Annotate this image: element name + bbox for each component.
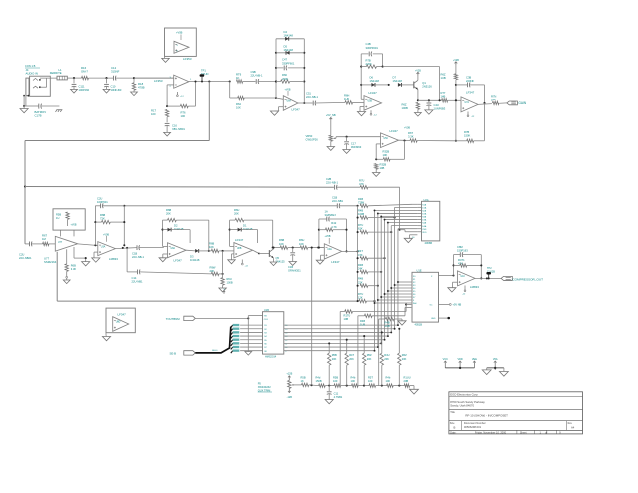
transistor Q5 (269, 248, 285, 266)
svg-text:C111: C111 (79, 84, 86, 88)
svg-text:Sheet: Sheet (520, 432, 527, 435)
svg-text:330PF601: 330PF601 (282, 61, 295, 65)
svg-text:LM833: LM833 (109, 257, 118, 261)
svg-text:3NFM63: 3NFM63 (351, 145, 362, 149)
svg-text:LF347: LF347 (118, 313, 127, 317)
svg-text:C16: C16 (172, 123, 177, 127)
svg-text:SE-B: SE-B (170, 351, 177, 355)
diode D5 (276, 44, 304, 54)
matrix U1E fan (374, 281, 412, 304)
resistor R7B 220K (361, 59, 382, 69)
svg-text:U5B: U5B (368, 101, 373, 103)
svg-text:U8A: U8A (171, 247, 176, 250)
power arrow small (223, 289, 226, 294)
svg-text:CW10P26: CW10P26 (306, 137, 319, 141)
svg-text:U8B: U8B (237, 248, 242, 250)
op-amp U1 (170, 75, 193, 88)
svg-text:R6B: R6B (100, 213, 105, 217)
wire TOUTBNK (195, 316, 262, 320)
power +5V_NB (326, 113, 336, 135)
svg-text:VEE: VEE (472, 358, 477, 361)
wire U8B fb left (229, 220, 234, 246)
svg-text:R7U: R7U (358, 292, 363, 296)
U5B plus gnd (357, 107, 365, 116)
op-amp U10 (458, 271, 476, 286)
testpoint TP2 (486, 267, 495, 280)
svg-text:R6T: R6T (408, 131, 413, 135)
diode D4 (276, 30, 304, 41)
svg-text:72BK: 72BK (358, 200, 365, 204)
wire U1 inv input (167, 85, 174, 106)
svg-text:RT6: RT6 (181, 111, 187, 115)
svg-text:20K: 20K (367, 357, 372, 361)
wire U1 out (189, 80, 231, 82)
svg-text:4051B: 4051B (415, 323, 423, 327)
wire agcfb right rail (123, 206, 125, 247)
resistor R6Z 1UB (441, 59, 460, 80)
wire C14 branch (127, 248, 137, 272)
svg-text:C4U: C4U (434, 103, 439, 107)
svg-text:1UK: 1UK (344, 97, 349, 101)
inductor L1 FERRITE (50, 68, 68, 80)
wire fb right rail (382, 54, 384, 68)
svg-text:1N4148: 1N4148 (243, 227, 253, 231)
wire U5C plus (376, 144, 380, 159)
svg-text:+12B: +12B (286, 373, 292, 376)
svg-text:C14: C14 (132, 276, 137, 280)
svg-text:C4B: C4B (366, 42, 371, 46)
wire R6Z down rail (455, 80, 457, 142)
svg-text:1A: 1A (325, 210, 328, 214)
svg-text:100: 100 (181, 114, 186, 118)
wire clamp left rail (275, 39, 277, 98)
op-amp U1B spare box (165, 28, 197, 56)
resistor R4B mid row (358, 308, 412, 386)
svg-text:LF347: LF347 (174, 258, 183, 262)
IC U1E (412, 269, 439, 327)
svg-text:U5C: U5C (384, 138, 389, 140)
wire U6A plus gnd (270, 107, 283, 116)
label LF353 U1 (154, 79, 163, 83)
svg-text:3.3K: 3.3K (408, 134, 414, 138)
svg-text:D4: D4 (284, 30, 288, 34)
svg-text:2N5126: 2N5126 (422, 85, 432, 89)
wire U8B out (253, 250, 270, 254)
U10 power stub (462, 286, 466, 296)
svg-text:4.7K: 4.7K (331, 225, 337, 229)
U8B plus gnd (228, 254, 235, 264)
svg-text:R5B: R5B (332, 353, 337, 357)
amp U77 triangle (55, 230, 77, 251)
svg-text:Q5: Q5 (276, 256, 280, 260)
svg-text:20K: 20K (234, 211, 239, 215)
svg-text:LM833: LM833 (470, 285, 479, 289)
svg-text:4.7NB1: 4.7NB1 (334, 395, 343, 399)
svg-text:10K: 10K (236, 105, 241, 109)
svg-text:C4T: C4T (282, 58, 287, 62)
svg-text:R4d: R4d (316, 376, 321, 380)
svg-text:D3A: D3A (422, 219, 427, 222)
svg-text:22U-NB-1: 22U-NB-1 (251, 74, 263, 78)
svg-text:R7B: R7B (464, 130, 469, 134)
svg-text:330PF601: 330PF601 (366, 46, 379, 50)
svg-text:U3A: U3A (101, 245, 106, 248)
svg-text:SEL0: SEL0 (212, 350, 218, 352)
wire U5C out (399, 139, 411, 141)
svg-text:Friday, November 10, 2000: Friday, November 10, 2000 (475, 431, 507, 435)
svg-text:R1TU: R1TU (344, 314, 351, 318)
wire VR50 wiper (336, 136, 381, 139)
svg-text:100: 100 (151, 112, 156, 116)
svg-text:20K: 20K (332, 357, 337, 361)
capacitor C4B (361, 42, 382, 56)
diode D7 (393, 75, 415, 87)
svg-text:10B: 10B (380, 166, 385, 170)
svg-text:R4T1: R4T1 (458, 258, 465, 262)
op-amp U5B (364, 91, 382, 110)
tap resistor R4T 20K 2 (345, 339, 355, 386)
svg-text:P5: P5 (258, 382, 262, 386)
svg-text:D5: D5 (284, 44, 288, 48)
svg-text:VCC: VCC (443, 358, 448, 361)
wire U1E out (439, 274, 455, 276)
chassis ground (56, 110, 63, 112)
svg-text:U8D: U8D (116, 322, 121, 324)
svg-text:+5V_NB: +5V_NB (326, 113, 336, 117)
U2A gnd pin (404, 235, 417, 243)
wires SEL to DIP (240, 325, 262, 351)
op-amp U8A (168, 243, 187, 258)
resistor R18 (131, 82, 145, 96)
svg-text:Sandy, Utah 84070: Sandy, Utah 84070 (450, 404, 474, 408)
resistor RT8 100 (167, 82, 195, 119)
IC U2A (422, 198, 440, 245)
svg-text:R32B: R32B (383, 150, 390, 154)
wire U10 fb left (452, 255, 454, 276)
ground J4 sleeve (20, 95, 29, 113)
svg-text:R7U: R7U (359, 178, 364, 182)
svg-text:VSS: VSS (422, 229, 427, 231)
svg-text:+V0B: +V0B (285, 88, 291, 91)
capacitor C3B (456, 75, 485, 103)
wire big loop (57, 252, 359, 301)
power VDD (457, 358, 462, 368)
capacitor C17 (343, 137, 362, 154)
svg-text:R6H: R6H (344, 94, 349, 98)
svg-text:VDD: VDD (457, 358, 462, 361)
bus SEL label (212, 350, 218, 352)
svg-text:150B: 150B (316, 379, 322, 383)
svg-text:C8M: C8M (457, 245, 463, 249)
svg-text:1N4148: 1N4148 (284, 48, 294, 52)
svg-text:R4b: R4b (351, 376, 356, 380)
capacitor C1B bus (332, 196, 359, 209)
capacitor C42 (319, 210, 347, 222)
svg-text:R6B: R6B (209, 242, 214, 246)
chain resistor R4e 100 (386, 376, 405, 388)
wire fb loop right (474, 103, 485, 141)
power VEE (472, 358, 477, 368)
capacitor C2U input (19, 242, 43, 260)
wire U1E vcc pin (439, 304, 462, 307)
svg-text:1N4148: 1N4148 (174, 227, 184, 231)
wire R16 to C12 (89, 77, 114, 79)
svg-text:20K: 20K (384, 357, 389, 361)
switch U1B DIP (263, 309, 289, 358)
svg-text:U9A: U9A (327, 248, 332, 251)
diode D1 (230, 223, 258, 243)
svg-text:1UNF6B3: 1UNF6B3 (434, 107, 446, 111)
resistor R5B 1K (301, 376, 319, 387)
svg-text:GND: GND (431, 318, 436, 320)
resistor R32B 10B (372, 163, 386, 177)
svg-text:D2: D2 (174, 223, 178, 227)
capacitor C2B (326, 177, 360, 190)
capacitor C17B BATMOV (24, 104, 59, 118)
svg-text:R6Z: R6Z (441, 73, 446, 77)
svg-text:34ZNB2J: 34ZNB2J (325, 213, 337, 217)
title block (449, 392, 583, 435)
svg-text:S1A: S1A (422, 203, 426, 206)
U8A plus gnd (159, 254, 167, 262)
svg-text:1U: 1U (56, 216, 59, 220)
testpoint TP1 (200, 68, 209, 81)
U1E right labels (430, 276, 437, 320)
svg-text:C3B: C3B (466, 75, 471, 79)
chain resistor R4d 150B (316, 376, 335, 388)
svg-text:+V2B: +V2B (415, 70, 421, 73)
svg-text:R1UU: R1UU (404, 376, 411, 380)
wire agc out (78, 244, 98, 246)
wire feedback bus drop (24, 82, 209, 244)
op-amp U5C (381, 127, 411, 148)
svg-text:100: 100 (386, 379, 391, 383)
port TOUTBNK (166, 316, 196, 321)
op-amp U7A (461, 90, 478, 112)
svg-text:10K: 10K (383, 153, 388, 157)
svg-text:INH: INH (413, 303, 417, 305)
svg-text:U7A: U7A (465, 101, 470, 104)
svg-text:150P163: 150P163 (457, 249, 468, 253)
wire ladder rail (357, 206, 359, 302)
svg-text:+V0B: +V0B (404, 127, 410, 130)
svg-text:R6U: R6U (299, 238, 304, 242)
svg-text:C9B: C9B (251, 70, 256, 74)
wire U7A out row (478, 102, 507, 105)
svg-text:+V0B: +V0B (176, 31, 183, 35)
svg-text:R6U: R6U (234, 208, 239, 212)
svg-text:LF353: LF353 (154, 79, 163, 83)
U5B power stub (370, 110, 377, 116)
svg-text:S2A: S2A (422, 210, 426, 213)
svg-text:14B: 14B (441, 95, 446, 99)
port SEL-B (170, 351, 196, 356)
svg-text:470B: 470B (138, 86, 145, 90)
svg-text:100: 100 (368, 379, 373, 383)
svg-text:ORANGE1: ORANGE1 (288, 268, 301, 272)
chain resistor R5T 100 (368, 376, 387, 388)
svg-text:D1A: D1A (422, 206, 427, 209)
resistor R4B 72BK (358, 197, 417, 208)
svg-text:R7U: R7U (358, 223, 363, 227)
svg-text:R5Z: R5Z (367, 353, 372, 357)
svg-text:FERRITE: FERRITE (50, 71, 62, 75)
svg-text:D1: D1 (243, 223, 247, 227)
wire lower branch (230, 82, 238, 99)
svg-text:R4B: R4B (358, 209, 363, 213)
svg-text:C2U: C2U (97, 197, 102, 201)
wire U1E gnd pin (439, 317, 451, 319)
capacitor C111 (71, 78, 90, 93)
svg-text:C17: C17 (351, 142, 356, 146)
node CON header (25, 64, 40, 68)
capacitor C2U 100P601 (95, 197, 124, 209)
U7A power stub (467, 112, 475, 118)
resistor R6B 72K (95, 213, 124, 224)
ground tie right (499, 368, 508, 376)
svg-text:R4B: R4B (360, 319, 365, 323)
wire U6A inv (276, 98, 283, 99)
svg-text:1N4148: 1N4148 (393, 79, 403, 83)
resistor R16 (81, 66, 89, 80)
wire U5B fb left rail (360, 54, 364, 99)
wire emitter row (418, 99, 442, 101)
svg-text:RF-10 (SHOW) - IN/COMPOSET: RF-10 (SHOW) - IN/COMPOSET (465, 414, 508, 418)
svg-text:00506298.001: 00506298.001 (464, 425, 482, 429)
capacitor C14 (132, 270, 212, 284)
svg-text:R4U: R4U (384, 353, 389, 357)
svg-text:R42: R42 (331, 221, 336, 225)
svg-text:LF353: LF353 (183, 57, 192, 61)
resistor R6B 20K (163, 208, 209, 222)
wire U6A out (298, 102, 313, 104)
power +12B (286, 373, 292, 381)
resistor R7U 62K (358, 223, 392, 234)
wire rect row right (272, 247, 280, 249)
wire bus2 into U2A (400, 230, 418, 232)
U2A pin stubs (417, 203, 427, 233)
svg-text:R4B: R4B (358, 263, 363, 267)
svg-text:315NF: 315NF (111, 70, 120, 74)
svg-text:U77: U77 (58, 242, 63, 244)
power V6A (493, 358, 498, 370)
wire bus3 (123, 205, 337, 207)
svg-text:22U-NB-1: 22U-NB-1 (306, 95, 318, 99)
chain resistor R5B 100 (333, 376, 352, 388)
capacitor C11 (325, 386, 343, 404)
svg-text:100: 100 (351, 379, 356, 383)
svg-text:Q1: Q1 (422, 81, 426, 85)
svg-text:R4B: R4B (358, 277, 363, 281)
connector J4 AUDIO IN (26, 68, 51, 96)
wires DIP to matrix (284, 324, 399, 351)
wire power tie1 (445, 367, 474, 369)
svg-text:TOUTBNM: TOUTBNM (166, 317, 180, 321)
ground spare2 (102, 333, 110, 341)
svg-text:R66: R66 (282, 73, 287, 77)
svg-text:U1B: U1B (264, 309, 269, 312)
resistor R6T 3.3K (408, 131, 456, 142)
label LF347 U8A (174, 258, 183, 262)
resistor R4B 22K (358, 277, 379, 288)
wire agcfb left rail (94, 206, 96, 246)
bus branch stubs (231, 325, 233, 353)
transistor Q1 (414, 70, 432, 90)
svg-text:22U-NB21: 22U-NB21 (19, 256, 32, 260)
svg-text:R5B: R5B (301, 376, 306, 380)
svg-text:D7: D7 (393, 75, 397, 79)
wire riser x378 (379, 319, 386, 386)
resistor R42 4.7K (319, 221, 347, 231)
op-amp U9 (324, 235, 341, 264)
svg-text:220NF: 220NF (466, 79, 474, 83)
svg-text:+5V NB: +5V NB (453, 304, 462, 307)
wire riser x311 (311, 247, 313, 386)
resistor R1T 100 (151, 109, 169, 117)
svg-text:A4: A4 (571, 425, 575, 429)
svg-text:R5B: R5B (56, 212, 61, 216)
resistor R5B 1U (56, 212, 69, 226)
capacitor Cclip (288, 248, 301, 273)
svg-text:20K: 20K (349, 357, 354, 361)
chain resistor R4b 100 (351, 376, 370, 388)
svg-text:C1B: C1B (132, 252, 137, 256)
wire U10 out (475, 277, 501, 279)
power -12B (287, 388, 293, 398)
label SSM2164 (44, 256, 57, 264)
svg-text:100PJ60: 100PJ60 (79, 88, 90, 92)
svg-text:VR50: VR50 (306, 134, 313, 138)
wire U5C fb (390, 141, 405, 160)
resistor R7U 47K (359, 178, 400, 189)
svg-text:R9W: R9W (210, 265, 216, 269)
svg-text:R6U: R6U (227, 277, 232, 281)
op-amp U8D spare (106, 308, 135, 333)
wire U8A fb right (208, 220, 210, 252)
svg-text:SSM2164: SSM2164 (44, 260, 57, 264)
chain resistor R1UU 20B (404, 376, 419, 394)
matrix dots (374, 209, 389, 223)
resistor R1TU 10B (340, 303, 411, 385)
wire top long to emitter node (383, 67, 440, 101)
svg-text:1N4148: 1N4148 (190, 258, 200, 262)
resistor R7U 12K (358, 292, 376, 303)
svg-text:C11: C11 (334, 391, 339, 395)
svg-text:R6Z: R6Z (402, 353, 407, 357)
svg-text:B: B (454, 425, 456, 429)
capacitor C4T (276, 58, 304, 71)
svg-text:R6B: R6B (166, 208, 171, 212)
svg-text:R5B: R5B (333, 376, 338, 380)
svg-text:R6B: R6B (279, 238, 284, 242)
svg-text:100B: 100B (402, 106, 408, 110)
label LF353 spare (183, 57, 192, 61)
op-amp U8B (234, 238, 253, 258)
svg-text:D3: D3 (190, 255, 194, 259)
svg-text:VDD: VDD (422, 232, 427, 234)
wire bus2 drop (399, 187, 401, 231)
resistor R4T 47K (358, 249, 386, 260)
svg-text:R7N: R7N (491, 95, 496, 99)
resistor RT9 1K (236, 73, 256, 84)
wire U8B fb right (272, 220, 274, 249)
diode D6 (361, 75, 390, 87)
resistor R6T 1M (42, 234, 55, 246)
resistor R4B 100B (358, 209, 396, 220)
capacitor C1B rect (132, 245, 164, 259)
ground spare box (162, 56, 169, 62)
diode D3 (186, 249, 211, 262)
